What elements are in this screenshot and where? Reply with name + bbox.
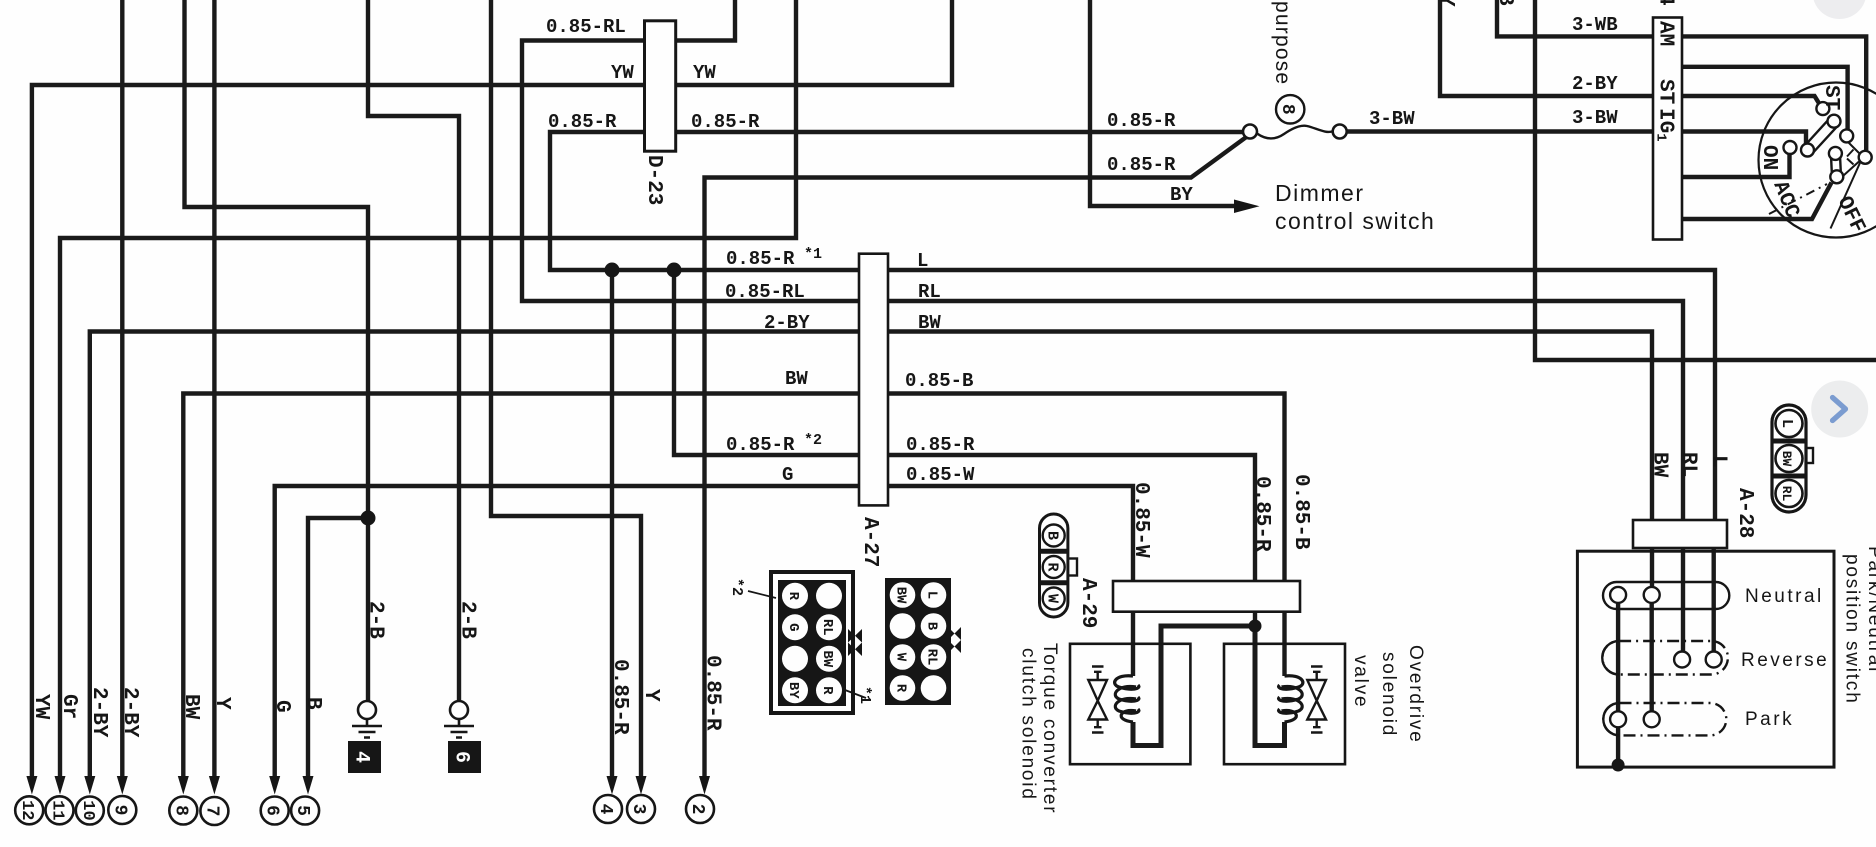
svg-text:BY: BY (785, 682, 801, 699)
ignition contact ON (1784, 141, 1797, 154)
ignition pivot V lines and ticks (1844, 138, 1860, 176)
svg-text:ON: ON (1757, 145, 1780, 170)
svg-text:purpose: purpose (1271, 1, 1294, 85)
rotated sans labels (1018, 1, 1876, 814)
wire 2-BY: circle 9 straight up (120, 0, 124, 779)
svg-text:2-B: 2-B (364, 601, 387, 639)
floating button top edge (partial) (1813, 0, 1867, 19)
svg-text:A-27: A-27 (858, 517, 881, 567)
svg-text:0.85-R: 0.85-R (906, 434, 975, 456)
torque solenoid coil (1115, 676, 1139, 722)
circled terminal numbers (17, 104, 1297, 821)
svg-text:Dimmer: Dimmer (1275, 180, 1365, 206)
svg-text:YW: YW (611, 62, 634, 84)
svg-text:A-28: A-28 (1733, 488, 1756, 538)
svg-text:2: 2 (687, 804, 707, 815)
svg-text:B: B (924, 622, 940, 631)
svg-text:10: 10 (78, 800, 97, 820)
wire 0.85-R *2: junction x674 down, row to A-27, behind A-29 bar to junction dot (674, 270, 1255, 626)
ignition contact c3 (1840, 129, 1853, 142)
ground connector symbol (to ground 6) (444, 701, 474, 738)
junction dot (1249, 620, 1262, 633)
svg-text:3: 3 (628, 804, 648, 815)
wire 0.85-R: from switch contact left through D-23, down x550, row L to A-28 drop x1715 (550, 132, 1715, 520)
A-28 oval connector icon tab (1803, 448, 1813, 463)
ignition switch circle (1759, 83, 1876, 238)
svg-text:L: L (917, 250, 928, 272)
svg-text:*2: *2 (728, 578, 745, 596)
ground 4 black box (348, 741, 381, 773)
ground dot in park/neutral switch (1612, 759, 1625, 772)
svg-text:0.85-R: 0.85-R (1107, 110, 1176, 132)
bowtie mark on block *1 (948, 627, 961, 653)
overdrive solenoid coil (1279, 676, 1303, 722)
numbered circle 8 above relay (1276, 95, 1304, 123)
A-29 oval connector icon (1040, 514, 1068, 617)
wire: from top x1535 down to y360, right to edge (1535, 0, 1876, 360)
8-pin connector block *2 outer frame (771, 572, 853, 713)
svg-text:0.85-B: 0.85-B (1289, 474, 1312, 550)
leader line for *2 (748, 591, 776, 598)
svg-text:G: G (270, 700, 293, 713)
bottom terminal circles 12 to 2 (15, 795, 714, 825)
svg-text:Y: Y (639, 689, 662, 702)
svg-text:control switch: control switch (1275, 208, 1435, 234)
torque converter clutch solenoid box (1070, 644, 1190, 764)
svg-text:Reverse: Reverse (1741, 650, 1829, 671)
ignition contact ST (1816, 102, 1829, 115)
svg-text:RL: RL (924, 649, 940, 666)
dimmer relay contact right (1333, 125, 1347, 139)
svg-text:Torque converter: Torque converter (1039, 643, 1060, 814)
svg-text:ST: ST (1819, 85, 1842, 110)
wire RL: A-28 bar down into box to reverse contact (1681, 520, 1685, 651)
dimmer arrowhead (1234, 200, 1260, 214)
wire BW: A-28 bar down into box to neutral contact (1650, 520, 1654, 587)
ignition rotor blade C4-C2 (1804, 119, 1838, 154)
svg-text:9: 9 (109, 805, 129, 816)
svg-text:*1: *1 (856, 686, 873, 704)
svg-text:0.85-R: 0.85-R (1107, 154, 1176, 176)
svg-text:B: B (301, 697, 324, 710)
svg-text:0.85-R: 0.85-R (691, 111, 760, 133)
dimmer relay contact left (1243, 125, 1257, 139)
svg-text:4: 4 (1654, 0, 1677, 6)
wire 0.85-R: junction x612 down to circle 4 (610, 270, 614, 779)
svg-text:G: G (785, 623, 801, 631)
svg-text:R: R (785, 592, 801, 601)
svg-text:*1: *1 (804, 246, 822, 263)
wire 3-BW: from switch contact right to ignition connector IG1 pin, down to contact (1347, 132, 1806, 144)
svg-text:0.85-R: 0.85-R (726, 434, 795, 456)
svg-text:Neutral: Neutral (1745, 586, 1824, 607)
svg-text:12: 12 (17, 800, 36, 820)
svg-text:0.85-RL: 0.85-RL (546, 16, 626, 38)
svg-text:ST: ST (1654, 79, 1677, 104)
svg-text:0.85-W: 0.85-W (1129, 482, 1152, 558)
ignition pivot contact OFF (1859, 151, 1872, 164)
svg-text:L: L (924, 591, 940, 599)
ignition contact ACC (1830, 170, 1843, 183)
wire Y: from top x491 down, right at y516, down to circle 3 (491, 0, 641, 779)
bowtie mark on block *2 (848, 629, 862, 656)
wire ACC: from connector, diagonal up to contact c8 (1670, 183, 1832, 220)
ground 6 black box (448, 741, 481, 773)
svg-text:BW: BW (1779, 451, 1794, 467)
svg-text:W: W (893, 653, 909, 662)
svg-text:2-BY: 2-BY (1572, 73, 1618, 95)
park/neutral position switch box (1577, 551, 1834, 767)
svg-text:BW: BW (1648, 452, 1671, 478)
svg-text:B: B (1493, 0, 1516, 6)
svg-text:Y: Y (1434, 0, 1457, 7)
svg-text:Y: Y (210, 697, 233, 710)
svg-text:AM: AM (1654, 21, 1677, 46)
svg-text:0.85-R: 0.85-R (608, 659, 631, 735)
wire B: branch from junction to circle 5 (308, 518, 368, 779)
leader line for *1 (845, 690, 866, 698)
svg-text:RL: RL (1779, 486, 1794, 502)
svg-text:L: L (1707, 455, 1730, 468)
neutral contact stadium (1603, 582, 1729, 609)
svg-text:RL: RL (819, 619, 835, 636)
svg-text:BW: BW (893, 587, 909, 604)
svg-text:B: B (1044, 531, 1061, 540)
wire 2-BY: circle 10 up to row 2-BY/BW into A-27 and on to A-28 BW drop (90, 332, 1652, 780)
svg-text:BW: BW (785, 368, 808, 390)
svg-text:8: 8 (170, 805, 190, 816)
ignition contact IG1 (1801, 144, 1814, 157)
svg-text:3-BW: 3-BW (1572, 107, 1618, 129)
svg-text:YW: YW (29, 694, 52, 720)
svg-text:4: 4 (350, 751, 373, 763)
svg-text:0.85-RL: 0.85-RL (725, 281, 805, 303)
svg-text:valve: valve (1350, 655, 1371, 708)
svg-text:solenoid: solenoid (1378, 652, 1399, 737)
8-pin connector block *1 frame (887, 580, 950, 704)
wire Gr: circle 11 up to y238, right to x796, up to top (60, 0, 796, 779)
A-28 connector bar (1633, 520, 1727, 548)
svg-text:2-B: 2-B (456, 601, 479, 639)
ignition small blade C7-C8 (1831, 153, 1841, 176)
wire: neutral contact to park contact inside box (1649, 603, 1653, 712)
relay switch blade squiggle (1257, 126, 1333, 139)
svg-text:Overdrive: Overdrive (1405, 645, 1426, 744)
ignition contact c7 (1829, 147, 1842, 160)
svg-text:BW: BW (819, 650, 835, 667)
overdrive valve symbol (1307, 667, 1326, 733)
svg-text:0.85-B: 0.85-B (905, 370, 973, 392)
wire 0.85-RL: top x735 down, left through D-23, down x522, row RL to A-28 drop x1683 (522, 0, 1683, 520)
A-27 connector (859, 254, 888, 506)
junction dot (361, 511, 376, 526)
ground connector symbol (to ground 4) (352, 701, 382, 738)
svg-text:BW: BW (179, 694, 202, 720)
svg-text:Park/Neutral: Park/Neutral (1864, 546, 1876, 673)
svg-text:BW: BW (918, 312, 941, 334)
A-29 oval connector icon tab (1066, 559, 1077, 576)
wire 2-B: from top x368 down to y116, right to x459, down to ground connector 6 (368, 0, 459, 701)
wire BY: from top x1090 down to y206, right to dimmer arrow (1090, 0, 1238, 206)
A-29 connector bar (1113, 581, 1300, 612)
wire G: circle 6 up to row G/0.85-W through A-27, down at x1133 to torque coil (275, 486, 1133, 779)
svg-text:3-WB: 3-WB (1572, 14, 1618, 36)
wire 2-BY / ST: from top x1440, right through connector, diagonal to ST contact (1440, 0, 1819, 103)
svg-text:3-BW: 3-BW (1369, 108, 1415, 130)
floating next-page button (blue chevron) (1811, 381, 1868, 438)
pin letters in connector blocks (785, 419, 1795, 699)
svg-text:7: 7 (201, 806, 221, 817)
svg-text:RL: RL (1677, 452, 1700, 477)
wire Y: circle 7 straight up (212, 0, 216, 779)
svg-text:*2: *2 (804, 432, 822, 449)
svg-text:clutch solenoid: clutch solenoid (1018, 648, 1039, 801)
reverse contact stadium (dash-dot) (1602, 641, 1728, 675)
big sans labels (1275, 180, 1435, 234)
wire AM2: from connector right edge down to contact c3 (1670, 67, 1848, 130)
torque valve symbol (1088, 667, 1107, 733)
svg-text:11: 11 (48, 800, 67, 820)
svg-text:0.85-R: 0.85-R (548, 111, 617, 133)
svg-text:L: L (1778, 419, 1795, 428)
junction dot (605, 263, 620, 278)
svg-text:8: 8 (1277, 104, 1297, 115)
overdrive solenoid valve box (1224, 644, 1345, 764)
park contact stadium (dash-dot) (1603, 703, 1726, 735)
wire L: A-28 bar down into box to reverse contact (1711, 520, 1715, 651)
arrowheads at bottom circled terminals (26, 200, 1259, 795)
wire: overdrive solenoid U-loop (1255, 626, 1285, 746)
wire YW: circle 12 up, across top, up at x952 (32, 0, 952, 779)
svg-text:0.85-R: 0.85-R (701, 655, 724, 731)
svg-text:BY: BY (1170, 184, 1193, 206)
wire: torque converter solenoid U-loop to junction dot (1133, 626, 1255, 746)
wire BW: circle 8 up to row BW/0.85-B through A-27, down at x1284.5 to overdrive coil (183, 394, 1284, 780)
svg-text:2-BY: 2-BY (764, 312, 810, 334)
svg-text:YW: YW (693, 62, 716, 84)
svg-text:R: R (893, 684, 909, 693)
ignition dash-dot line to ACC (1769, 184, 1827, 214)
svg-text:Park: Park (1745, 709, 1794, 730)
wire 0.85-R: second feed, diagonal to switch, left along y177.5, down to circle 2 (705, 137, 1248, 780)
svg-text:6: 6 (450, 751, 473, 763)
svg-text:position switch: position switch (1842, 554, 1863, 705)
text labels: wire gauges and colors (546, 14, 1618, 486)
svg-text:6: 6 (262, 805, 282, 816)
D-23 connector (645, 21, 676, 151)
svg-text:4: 4 (595, 804, 615, 815)
svg-text:RL: RL (918, 281, 941, 303)
svg-text:G: G (782, 464, 793, 486)
ignition contact c2 (1828, 115, 1841, 128)
svg-text:0.85-W: 0.85-W (906, 464, 975, 486)
ignition OFF line (1831, 160, 1862, 229)
park/neutral switch contacts (1610, 587, 1722, 727)
wire: neutral left contact down to ground dot (1616, 603, 1620, 765)
wire: from top x184.5 down to y207, right to x368, down to ground connector 4 (185, 0, 369, 701)
svg-text:5: 5 (292, 805, 312, 816)
8-pin connector block *2 pin grid (778, 580, 846, 706)
svg-text:D-23: D-23 (642, 155, 665, 205)
svg-text:R: R (819, 686, 835, 695)
svg-text:2-BY: 2-BY (87, 687, 110, 738)
svg-text:0.85-R: 0.85-R (726, 248, 795, 270)
svg-text:Gr: Gr (57, 694, 80, 719)
wire ON: from connector to ON contact (1670, 154, 1790, 177)
junction dot (667, 263, 682, 278)
svg-text:W: W (1044, 594, 1061, 603)
wire 3-WB / AM: from top x1497, right through connector, down to OFF pivot contact (1497, 0, 1866, 150)
svg-text:0.85-R: 0.85-R (1250, 476, 1273, 552)
svg-text:A-29: A-29 (1076, 578, 1099, 628)
svg-text:2-BY: 2-BY (118, 687, 141, 738)
ignition switch connector bar AM ST IG1 (1653, 18, 1682, 240)
svg-text:R: R (1044, 562, 1061, 571)
A-28 oval connector icon (1772, 405, 1806, 512)
